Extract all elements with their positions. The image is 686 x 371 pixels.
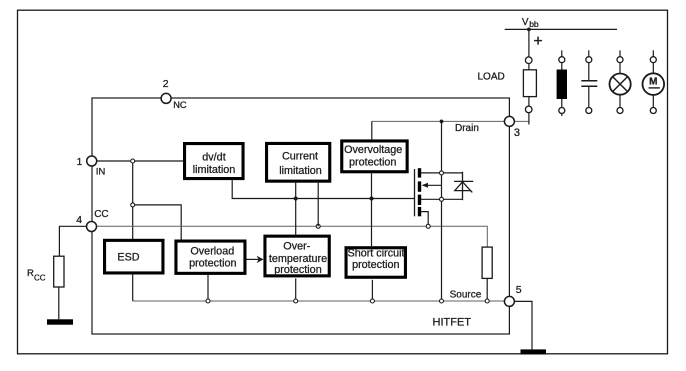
body arrow [423,184,442,186]
svg-text:Source: Source [450,289,482,300]
svg-text:limitation: limitation [279,165,322,177]
resistor: internal sense resistor [482,247,492,278]
svg-text:limitation: limitation [193,164,236,176]
wire: sense segment tab to CC net [421,212,428,225]
block Over-temperature protection [265,236,329,276]
node junction CC to MOSFET sense tab [426,224,430,228]
wire: Over-temperature bottom lead [295,278,297,301]
wire: source bus [133,300,510,302]
arrow from Overload protection to Over-temperature protection [247,256,264,263]
svg-text:ESD: ESD [117,251,139,263]
ground bar at pin 5 [521,349,547,354]
pin 4 CC [87,222,97,232]
junction dot gate bus / current limitation [294,197,298,201]
svg-text:protection: protection [349,156,396,168]
svg-text:V: V [522,17,529,28]
svg-text:protection: protection [274,264,321,276]
svg-text:M: M [649,77,657,88]
motor load example [643,50,665,113]
wire: drain to overvoltage protection [371,121,373,139]
channel bar source segment [418,195,421,205]
svg-text:Drain: Drain [455,123,479,134]
pin 5 Source [504,296,514,306]
block Short circuit protection [346,248,405,278]
svg-text:temperature: temperature [269,253,327,265]
wire: RCC bottom lead [58,287,60,319]
svg-text:NC: NC [173,100,187,110]
svg-text:CC: CC [34,274,46,283]
inductive load example [557,50,567,116]
svg-text:1: 1 [76,156,82,168]
svg-text:protection: protection [189,258,236,270]
svg-text:+: + [533,33,542,50]
wire: sense resistor bottom lead [486,278,488,301]
junction dot on Vbb rail [527,28,531,32]
node junction on IN net [131,159,135,163]
wire: vertical from IN net down to ESD [132,161,134,239]
svg-text:4: 4 [76,214,82,226]
svg-text:LOAD: LOAD [478,71,505,82]
node on source tie [440,197,444,201]
block ESD [105,240,163,273]
svg-text:Over-: Over- [283,241,310,253]
channel bar drain segment [418,168,421,177]
cathode bar [454,180,473,182]
node junction on ESD branch [131,203,135,207]
svg-text:HITFET: HITFET [433,317,472,329]
HITFET device boundary box [92,98,509,334]
wire: current limitation right lead down to CC net [317,183,319,227]
wire: load leads [528,64,530,70]
wire: MOSFET source down to source bus [441,201,443,301]
zener tick [471,191,473,193]
wire: body to drain-source tie [441,173,443,199]
anode triangle [455,182,471,191]
wire: source segment to diode [421,198,463,200]
wire: drain segment to diode [421,172,463,174]
wire: CC branch to external RCC [59,226,92,256]
diode: body diode [454,172,473,201]
block Overload protection [176,241,245,273]
svg-text:protection: protection [352,259,399,271]
node on drain tie [440,171,444,175]
node junction source bus / sense resistor [485,299,489,303]
junction dot on drain net [440,120,444,124]
block dv/dt limitation [185,144,244,179]
block Overvoltage protection [342,141,407,172]
node junction source bus / overload [206,299,210,303]
channel bar body segment [418,181,421,191]
svg-text:Overvoltage: Overvoltage [344,144,402,156]
channel bar sense segment [418,207,421,216]
junction dot gate bus / overvoltage lead [370,197,374,201]
pin 2 NC [161,93,171,103]
wire: Vbb down to load [528,29,530,57]
resistor RCC [54,256,64,287]
terminal node below load [525,106,532,113]
wire: gate bus from dv/dt limitation to MOSFET gate [232,180,414,198]
svg-text:R: R [27,268,34,279]
svg-text:5: 5 [516,284,522,296]
svg-text:Overload: Overload [190,245,234,257]
svg-text:2: 2 [163,78,169,90]
node junction source bus / MOSFET source [440,299,444,303]
block Current limitation [267,143,330,181]
lamp load example [610,50,631,113]
Vbb supply rail [505,28,617,30]
gate electrode line [414,169,416,216]
svg-text:3: 3 [514,127,520,139]
resistor LOAD [523,70,536,97]
pin 3 Drain [504,116,514,126]
svg-text:Current: Current [282,150,318,162]
svg-text:bb: bb [529,19,539,29]
wire: IN net from pin 1 to dv/dt limitation [92,160,183,162]
svg-text:Short circuit: Short circuit [348,248,405,260]
wire: Short circuit bottom lead [371,280,373,301]
pin 1 IN [87,156,97,166]
node junction CC to current limitation [316,224,320,228]
wire: pin 5 to ground [514,301,532,349]
wire: current limitation left lead down to over-temperature [295,183,297,235]
wire: Overload bottom lead [207,275,209,301]
svg-text:dv/dt: dv/dt [202,152,225,164]
wire: ESD bottom lead [132,275,134,302]
wire: load to drain net [528,113,530,125]
terminal node above load [525,57,532,64]
wire: branch to Overload protection [133,205,182,240]
wire: drain net horizontal [372,120,529,122]
ground bar for RCC [47,319,73,324]
wire: overvoltage protection lead down to short circuit protection [371,173,373,246]
node junction source bus / short circuit [370,299,374,303]
capacitive load example [581,50,597,113]
wire: CC net from pin 4 to sense resistor [92,226,487,247]
svg-text:IN: IN [96,167,106,178]
transistor: power MOSFET [415,168,463,224]
wire: drain down to MOSFET [441,121,443,172]
node junction source bus / over-temperature [294,299,298,303]
svg-text:CC: CC [94,209,108,220]
